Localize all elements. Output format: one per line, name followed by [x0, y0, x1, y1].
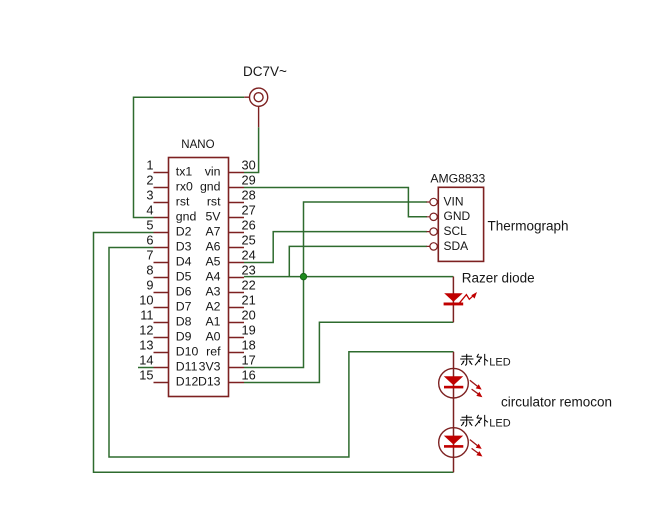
svg-text:A2: A2 [205, 300, 220, 314]
svg-text:10: 10 [139, 293, 153, 308]
svg-text:D12: D12 [176, 375, 199, 389]
svg-text:A1: A1 [205, 315, 220, 329]
svg-text:3V3: 3V3 [199, 360, 221, 374]
svg-text:20: 20 [242, 308, 256, 323]
svg-text:A0: A0 [205, 330, 220, 344]
svg-text:15: 15 [139, 368, 153, 383]
svg-text:tx1: tx1 [176, 165, 193, 179]
svg-text:DC7V~: DC7V~ [243, 64, 287, 79]
svg-text:13: 13 [139, 338, 153, 353]
svg-text:7: 7 [146, 248, 153, 263]
svg-text:D9: D9 [176, 330, 192, 344]
svg-text:30: 30 [242, 158, 256, 173]
svg-text:D6: D6 [176, 285, 192, 299]
svg-text:gnd: gnd [176, 210, 197, 224]
svg-text:D3: D3 [176, 240, 192, 254]
svg-text:27: 27 [242, 203, 256, 218]
svg-text:23: 23 [242, 263, 256, 278]
svg-text:A3: A3 [205, 285, 220, 299]
svg-text:A6: A6 [205, 240, 220, 254]
svg-text:3: 3 [146, 188, 153, 203]
svg-text:1: 1 [146, 158, 153, 173]
svg-text:D4: D4 [176, 255, 192, 269]
svg-text:D7: D7 [176, 300, 192, 314]
svg-text:6: 6 [146, 233, 153, 248]
svg-text:D5: D5 [176, 270, 192, 284]
svg-text:D11: D11 [176, 360, 198, 374]
svg-text:24: 24 [242, 248, 256, 263]
svg-text:GND: GND [444, 209, 471, 223]
svg-text:22: 22 [242, 278, 256, 293]
svg-text:LED: LED [489, 418, 510, 430]
svg-text:4: 4 [146, 203, 153, 218]
svg-text:AMG8833: AMG8833 [430, 171, 485, 185]
svg-text:Razer diode: Razer diode [462, 271, 535, 286]
svg-text:SCL: SCL [444, 224, 468, 238]
svg-text:19: 19 [242, 323, 256, 338]
svg-text:9: 9 [146, 278, 153, 293]
svg-text:rx0: rx0 [176, 180, 193, 194]
svg-text:rst: rst [207, 195, 221, 209]
svg-text:D2: D2 [176, 225, 192, 239]
svg-text:A5: A5 [205, 255, 220, 269]
svg-text:29: 29 [242, 173, 256, 188]
svg-text:25: 25 [242, 233, 256, 248]
svg-text:Thermograph: Thermograph [488, 219, 569, 234]
svg-text:A4: A4 [205, 270, 220, 284]
svg-text:26: 26 [242, 218, 256, 233]
svg-text:D10: D10 [176, 345, 199, 359]
svg-text:21: 21 [242, 293, 256, 308]
svg-text:rst: rst [176, 195, 190, 209]
svg-text:A7: A7 [205, 225, 220, 239]
svg-text:8: 8 [146, 263, 153, 278]
svg-text:NANO: NANO [181, 139, 214, 151]
svg-text:SDA: SDA [444, 239, 469, 253]
svg-text:16: 16 [242, 368, 256, 383]
svg-text:D13: D13 [198, 375, 221, 389]
svg-text:gnd: gnd [200, 180, 221, 194]
svg-text:2: 2 [146, 173, 153, 188]
svg-text:VIN: VIN [444, 194, 464, 208]
svg-text:28: 28 [242, 188, 256, 203]
svg-text:5: 5 [146, 218, 153, 233]
svg-text:circulator remocon: circulator remocon [501, 394, 612, 409]
svg-text:ref: ref [206, 345, 221, 359]
svg-text:18: 18 [242, 338, 256, 353]
svg-text:5V: 5V [205, 210, 221, 224]
svg-text:D8: D8 [176, 315, 192, 329]
svg-text:vin: vin [205, 165, 221, 179]
svg-text:12: 12 [139, 323, 153, 338]
svg-text:11: 11 [140, 308, 153, 323]
svg-text:17: 17 [242, 353, 256, 368]
svg-text:LED: LED [489, 357, 510, 369]
svg-text:14: 14 [139, 353, 153, 368]
